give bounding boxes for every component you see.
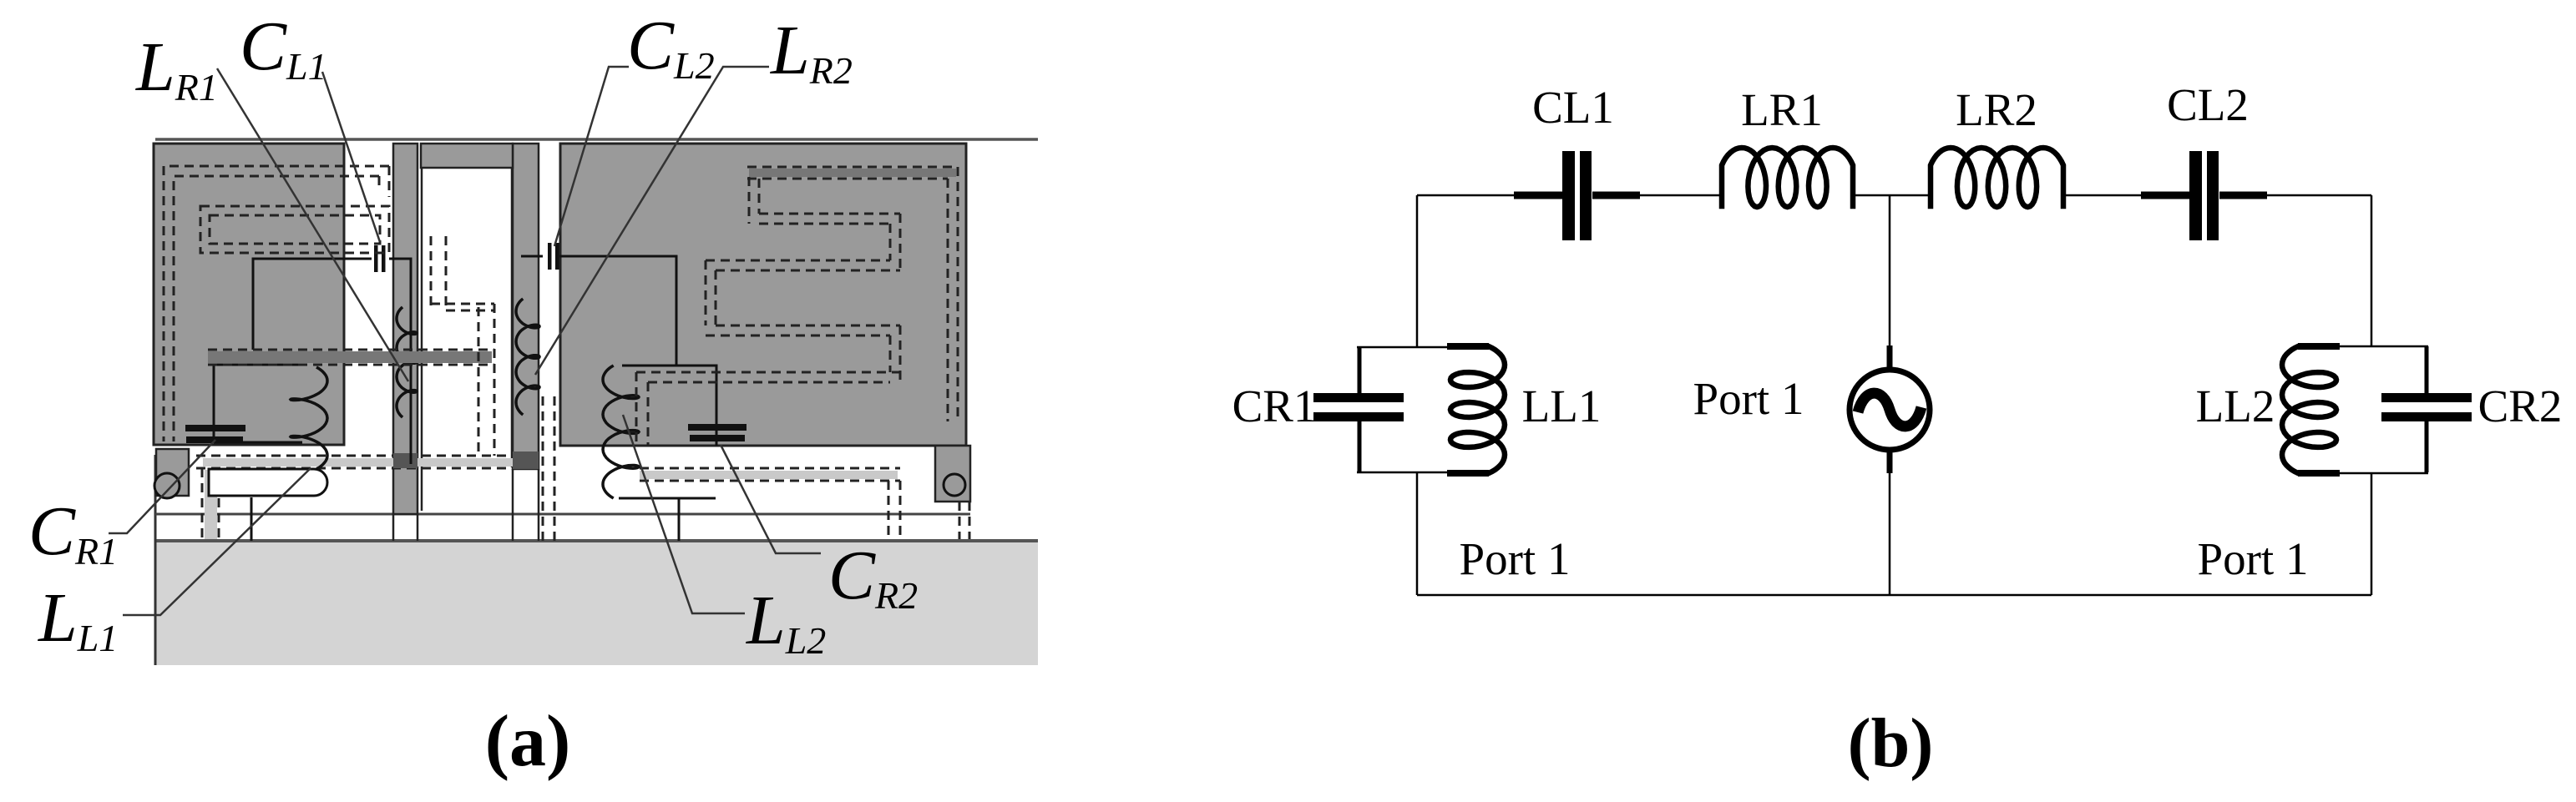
- svg-text:CL1: CL1: [1532, 82, 1614, 133]
- svg-text:CR1: CR1: [1232, 381, 1317, 431]
- svg-text:LL1: LL1: [1522, 381, 1602, 431]
- svg-text:Port 1: Port 1: [2198, 533, 2309, 584]
- svg-text:LR2: LR2: [1956, 84, 2037, 135]
- svg-text:Port 1: Port 1: [1693, 373, 1804, 424]
- svg-text:CL2: CL2: [2167, 79, 2249, 130]
- svg-text:LL2: LL2: [2196, 381, 2275, 431]
- svg-text:CR2: CR2: [2478, 381, 2563, 431]
- svg-text:(b): (b): [1848, 704, 1934, 782]
- svg-text:(a): (a): [485, 701, 571, 782]
- svg-text:Port 1: Port 1: [1460, 533, 1571, 584]
- svg-text:LR1: LR1: [1741, 84, 1823, 135]
